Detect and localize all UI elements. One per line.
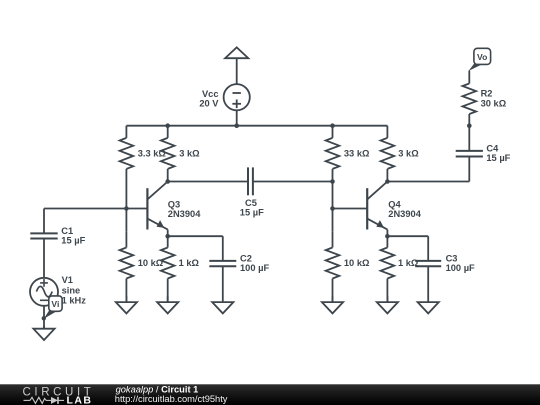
wire top supply rail: [126, 125, 387, 127]
svg-text:C1: C1: [61, 226, 73, 236]
transistor Q3 2N3904 NPN: [147, 182, 167, 237]
Vcc power arrow symbol: [225, 47, 248, 84]
label C2 100 uF: [240, 253, 269, 273]
wire Q4 emitter to C3: [387, 235, 428, 237]
label Vcc 20 V: [199, 89, 219, 109]
svg-text:3 kΩ: 3 kΩ: [398, 149, 419, 159]
ground (left 1 k): [157, 296, 178, 313]
svg-text:http://circuitlab.com/ct95hty: http://circuitlab.com/ct95hty: [115, 394, 228, 404]
resistor R2 30 k&#937;: [463, 71, 477, 126]
svg-text:20 V: 20 V: [199, 99, 219, 109]
voltage source V1 sine: [30, 278, 58, 329]
svg-text:10 kΩ: 10 kΩ: [344, 258, 370, 268]
svg-text:Q3: Q3: [168, 199, 180, 209]
ground (right 10 k): [322, 296, 343, 313]
svg-text:LAB: LAB: [67, 395, 92, 405]
ground (right 1 k): [377, 296, 398, 313]
ground (C2): [212, 266, 233, 313]
resistor 10 k&#937; (right bias lower): [326, 232, 340, 302]
net flag Vo output: [469, 48, 491, 71]
capacitor C3 100 uF: [415, 261, 441, 266]
net flag Vi: [42, 296, 63, 321]
svg-text:15 µF: 15 µF: [61, 236, 85, 246]
svg-text:1 kΩ: 1 kΩ: [179, 258, 200, 268]
label R2 30 kOhm: [481, 89, 507, 109]
voltage source V2 Vcc 20 V: [224, 84, 250, 126]
svg-text:R2: R2: [481, 89, 493, 99]
svg-text:C3: C3: [446, 253, 458, 263]
wire Q3 collector to C5: [168, 181, 248, 183]
resistor 3 k&#937; (Q4 collector load): [381, 126, 395, 182]
svg-text:15 µF: 15 µF: [486, 153, 510, 163]
svg-text:30 kΩ: 30 kΩ: [481, 98, 507, 108]
capacitor C2 100 uF: [209, 261, 236, 266]
svg-text:33 kΩ: 33 kΩ: [344, 149, 370, 159]
svg-text:Vcc: Vcc: [202, 89, 219, 99]
resistor 1 k&#937; (Q4 emitter): [381, 236, 395, 302]
svg-text:100 µF: 100 µF: [446, 263, 475, 273]
capacitor C4 15 uF output coupling: [456, 151, 483, 157]
svg-text:C5: C5: [245, 198, 257, 208]
svg-text:gokaalpp / Circuit 1: gokaalpp / Circuit 1: [116, 384, 199, 394]
wire C5 to Q4 bias node: [253, 181, 333, 183]
resistor 3 k&#937; (Q3 collector load): [161, 126, 175, 182]
wire C1 column upper: [43, 209, 45, 234]
wire left bias column: [125, 169, 127, 232]
CircuitLab logo schematic glyph (wire, resistor, diode): [24, 397, 65, 404]
wire C4 to R2: [468, 126, 470, 151]
svg-text:2N3904: 2N3904: [388, 209, 421, 219]
ground (C3): [418, 266, 439, 313]
junction dots: [124, 123, 472, 238]
resistor 3.3 k&#937; (left bias upper): [120, 126, 134, 169]
svg-text:Q4: Q4: [388, 199, 401, 209]
svg-text:Vo: Vo: [477, 52, 487, 62]
capacitor C1 15 uF: [30, 233, 57, 238]
ground (V1): [33, 326, 54, 340]
wire right bias column: [332, 169, 334, 232]
svg-text:10 kΩ: 10 kΩ: [138, 258, 164, 268]
label C3 100 uF: [446, 253, 475, 273]
svg-text:sine: sine: [62, 285, 81, 295]
label V1 sine 1 kHz: [62, 275, 87, 305]
svg-text:V1: V1: [62, 275, 73, 285]
footer bar CircuitLab: [0, 384, 540, 405]
svg-text:3 kΩ: 3 kΩ: [179, 149, 200, 159]
resistor 33 k&#937; (right bias upper): [326, 126, 340, 169]
capacitor C5 15 uF coupling: [248, 167, 253, 195]
ground (left 10 k): [116, 296, 137, 313]
svg-text:C2: C2: [240, 253, 252, 263]
wire Q4 collector to C4: [387, 181, 469, 183]
wire C1 to V1: [43, 239, 45, 278]
svg-text:15 µF: 15 µF: [240, 208, 264, 218]
svg-text:C4: C4: [486, 144, 499, 154]
resistor 10 k&#937; (left bias lower): [120, 232, 134, 302]
label Q3 2N3904: [168, 199, 201, 219]
label C4 15 uF: [486, 144, 510, 164]
wire Q3 base row (C1 to base): [44, 208, 147, 210]
svg-text:100 µF: 100 µF: [240, 263, 269, 273]
svg-text:2N3904: 2N3904: [168, 209, 201, 219]
label C5 15 uF: [240, 198, 264, 218]
wire Q4 base row: [333, 208, 368, 210]
resistor 1 k&#937; (Q3 emitter): [161, 236, 175, 302]
svg-text:1 kHz: 1 kHz: [62, 296, 87, 306]
svg-text:Vi: Vi: [51, 299, 59, 309]
label C1 15 uF: [61, 226, 85, 246]
label Q4 2N3904: [388, 199, 421, 219]
wire Q3 emitter to C2: [168, 235, 223, 237]
transistor Q4 2N3904 NPN: [367, 182, 387, 237]
